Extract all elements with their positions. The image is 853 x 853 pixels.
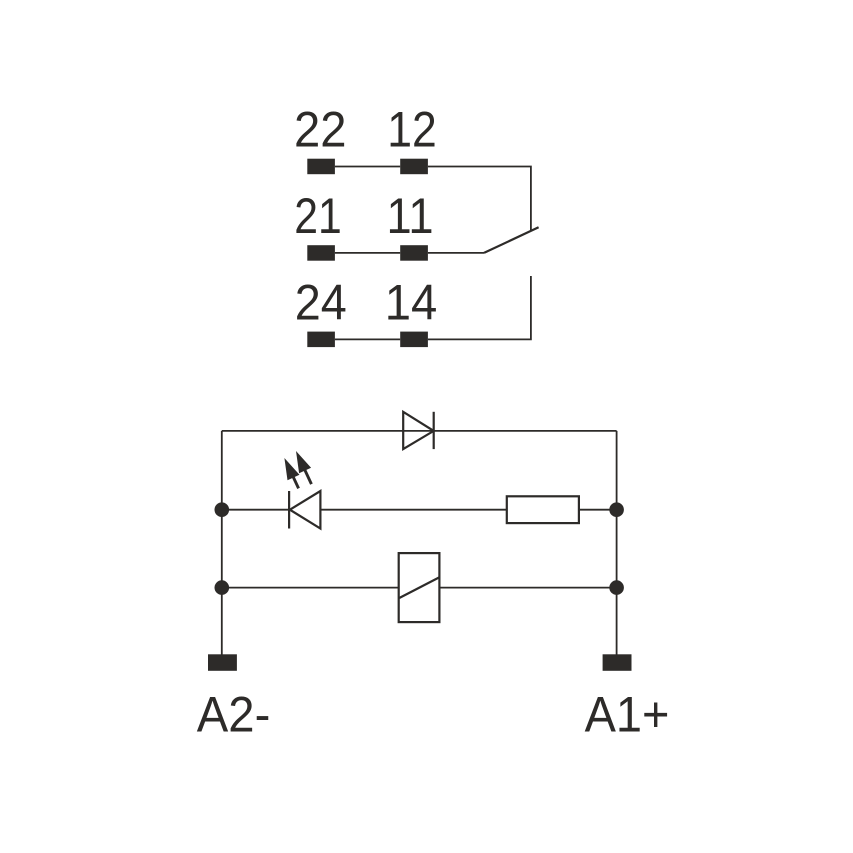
wire 12 to NC contact corner [428,167,531,231]
svg-text:11: 11 [387,187,434,244]
terminal 24 [307,332,335,348]
wire 11 to switch pivot [428,252,484,254]
wire 21 to 11 [335,252,400,254]
wire coil right vertical A1 [616,431,618,655]
LED arrow 2 [290,448,317,487]
terminal 12 [400,159,428,175]
wire 22 to 12 [335,166,400,168]
svg-text:A2-: A2- [197,686,270,743]
wire top branch [222,430,617,432]
wire middle branch right [579,509,617,511]
wire coil branch left [222,587,399,589]
resistor R1 [507,496,579,523]
wire middle branch center [320,509,506,511]
switch arm [484,227,539,253]
LED arrow 1 [278,455,304,491]
wire coil left vertical A2 [221,431,223,655]
terminal 21 [307,245,335,261]
svg-text:21: 21 [294,187,342,244]
svg-text:A1+: A1+ [585,686,670,743]
node A1 middle [609,502,624,517]
wire middle branch left [222,509,289,511]
wire coil branch right [439,587,616,589]
svg-text:14: 14 [385,273,438,330]
terminal A2 [208,654,237,671]
terminal 14 [400,332,428,348]
LED V2 [289,491,320,529]
node A2 lower [215,580,230,595]
relay coil K1 [399,553,440,622]
terminal 22 [307,159,335,175]
node A1 lower [609,580,624,595]
svg-text:24: 24 [295,273,347,330]
node A2 middle [215,502,230,517]
wire 14 to NO contact [428,276,531,339]
terminal A1 [603,654,632,671]
wire 24 to 14 [335,338,400,340]
svg-text:22: 22 [294,100,347,157]
svg-text:12: 12 [387,100,437,157]
terminal 11 [400,245,428,261]
diode V1 [403,412,434,449]
